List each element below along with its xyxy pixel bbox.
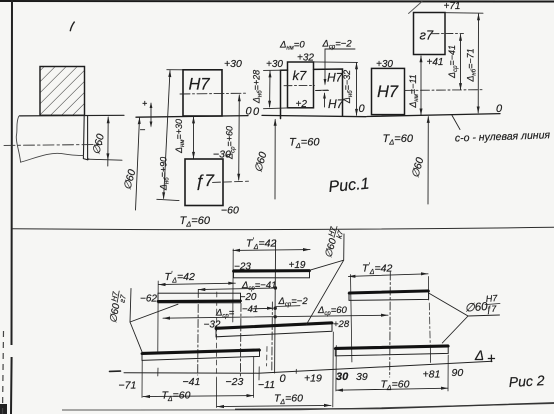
svg-text:+2: +2	[296, 99, 308, 110]
extension tick -11 at axis	[258, 367, 260, 380]
svg-text:−41: −41	[183, 376, 201, 388]
dimension D_sr=-41	[447, 34, 462, 90]
H7 centerline (d1)	[180, 92, 247, 95]
r7 centerline (d3)	[432, 32, 464, 34]
dimension T=60 (bottom left)	[143, 390, 254, 404]
svg-text:+30: +30	[224, 58, 242, 70]
svg-text:TΔ=60: TΔ=60	[274, 393, 303, 407]
dimension D_nb=+28	[252, 70, 272, 108]
r7 box (d3)	[414, 13, 446, 55]
svg-text:Δср=−41: Δср=−41	[241, 280, 276, 292]
shaft centerline	[4, 144, 102, 147]
svg-text:+: +	[142, 99, 147, 109]
+32 level extension (d2)	[314, 61, 358, 64]
shaft diameter dimension line	[107, 117, 109, 166]
+30 level tick (d1)	[167, 69, 183, 71]
svg-text:T'Δ=42: T'Δ=42	[246, 237, 276, 251]
svg-text:+19: +19	[304, 372, 322, 384]
dash-dot centerline +60	[389, 272, 392, 377]
shaft left break wavy line	[16, 116, 20, 162]
svg-text:+: +	[487, 352, 495, 368]
svg-text:39: 39	[356, 371, 368, 383]
k7 centerline (d2)	[284, 84, 315, 86]
svg-text:H7: H7	[189, 76, 211, 94]
shaft bottom extension tick	[88, 159, 122, 160]
H7 box (d3)	[372, 68, 405, 114]
bottom scan edge line	[62, 404, 554, 411]
svg-text:−23: −23	[226, 376, 244, 388]
axis line	[124, 361, 492, 373]
dash-dot centerline -41	[197, 290, 200, 376]
bottom left bar f7 band	[142, 349, 260, 361]
svg-text:∅60: ∅60	[464, 301, 488, 315]
extension line -71	[141, 361, 143, 398]
extension line 90	[447, 355, 449, 391]
svg-text:TΔ=60: TΔ=60	[383, 133, 414, 147]
svg-text:г7: г7	[420, 28, 434, 43]
extension line -62 left	[157, 281, 159, 352]
dimension T'=42 (right)	[348, 262, 428, 278]
H7 midline dashes (d2)	[316, 89, 330, 91]
axis minus sign	[110, 370, 121, 372]
f7 centerline dash (d1)	[213, 181, 249, 182]
label phi60 H7/f7 with leader	[429, 293, 500, 343]
label phi60 H7/r7 with leader	[106, 289, 178, 352]
dimension T'=42 (top)	[233, 237, 310, 252]
svg-text:−20: −20	[240, 292, 257, 303]
svg-text:ƒ7: ƒ7	[486, 304, 498, 315]
svg-text:−41: −41	[242, 304, 258, 315]
extension line 30 right	[335, 346, 337, 392]
svg-text:0: 0	[246, 106, 253, 118]
svg-text:TΔ=60: TΔ=60	[381, 379, 410, 393]
stray mark 1 (slash top-left)	[70, 22, 74, 32]
bottom-left corner dark mark	[0, 404, 7, 414]
dimension D_nb=-71	[466, 13, 481, 113]
figure separator line	[12, 227, 554, 229]
extension line -32 (dashed)	[215, 292, 217, 378]
svg-text:+71: +71	[444, 1, 461, 12]
extension tick -62 at axis	[157, 368, 159, 376]
stray diagonal scratch above r7	[409, 2, 423, 14]
dimension T'=42 (left)	[159, 271, 236, 286]
zero line callout leader	[452, 115, 460, 129]
node dot 1	[274, 286, 277, 289]
phi60 indicator line (d3)	[427, 117, 429, 204]
dimension D_nb=+90	[159, 70, 172, 199]
extension line -23	[232, 249, 234, 322]
svg-text:+30: +30	[376, 59, 393, 70]
dimension D_sr=-41 upper	[198, 280, 276, 292]
shaft bottom wavy line	[21, 153, 84, 162]
svg-text:Δср=60: Δср=60	[317, 305, 348, 317]
svg-text:T'Δ=42: T'Δ=42	[165, 271, 195, 285]
svg-text:+32: +32	[297, 53, 314, 64]
zero line (d3)	[367, 114, 500, 117]
dash-dot line at -2	[271, 302, 274, 372]
svg-text:90: 90	[452, 367, 464, 379]
svg-text:H7: H7	[485, 293, 498, 304]
f7 box (d1)	[185, 159, 223, 206]
svg-text:TΔ=60: TΔ=60	[162, 390, 191, 404]
svg-text:−32: −32	[204, 319, 221, 330]
svg-text:0: 0	[280, 373, 287, 385]
zero line	[136, 116, 248, 118]
node dot 2	[274, 307, 277, 310]
phi60 indicator line (d2)	[274, 120, 276, 200]
svg-text:−62: −62	[140, 293, 157, 304]
dimension T=60 (bottom middle)	[217, 393, 331, 409]
label phi60 H7/k7 with leader	[306, 224, 346, 325]
svg-text:Рuc 2: Рuc 2	[508, 372, 545, 390]
extension line +81 lower	[429, 345, 431, 363]
phi60 indicator line (d1)	[136, 118, 140, 210]
zero line (d2)	[262, 115, 366, 116]
svg-text:−11: −11	[258, 379, 275, 391]
page top edge line	[0, 0, 554, 3]
svg-text:−60: −60	[221, 205, 239, 217]
plus minus indicator	[140, 99, 153, 137]
dimension T=60 (bottom right)	[336, 379, 448, 393]
dash-dot centerline -20 edge	[239, 304, 242, 378]
H7 midline extension (d3)	[405, 89, 484, 92]
right top bar k7' band	[349, 290, 429, 301]
svg-text:T'Δ=42: T'Δ=42	[362, 262, 392, 276]
vertical reference line 0	[275, 240, 276, 373]
svg-text:+41: +41	[427, 57, 444, 68]
-60 level tick (d1)	[157, 199, 179, 200]
svg-text:0: 0	[253, 106, 260, 118]
dimension D_nb=-32	[342, 62, 358, 116]
extension line 28/30 left	[332, 332, 335, 407]
+30 level tick (d2)	[264, 69, 281, 71]
svg-text:k7: k7	[293, 68, 308, 83]
extension line -11 dim	[253, 357, 255, 398]
svg-text:H7: H7	[377, 83, 399, 101]
extension line +19 tick	[295, 369, 297, 373]
svg-text:TΔ=60: TΔ=60	[289, 137, 320, 151]
svg-text:+19: +19	[289, 260, 306, 271]
hatched hub block	[40, 67, 85, 116]
k7 box (d2)	[288, 62, 314, 108]
+71 level extension	[445, 12, 483, 15]
short arrow to zero (lower)	[252, 307, 273, 310]
bottom-left dashed page crease	[3, 331, 4, 414]
middle bar H7 band	[216, 322, 332, 337]
extension line -11 (dashed)	[266, 347, 268, 367]
top bar k7 band	[234, 270, 310, 278]
svg-text:0: 0	[359, 103, 366, 115]
node dot 3	[274, 315, 277, 318]
svg-text:−23: −23	[234, 261, 251, 272]
svg-text:TΔ=60: TΔ=60	[180, 215, 211, 229]
-62 bar r7 band	[158, 293, 241, 303]
extension line -32 to lower dim	[216, 378, 218, 408]
svg-text:Рuc.1: Рuc.1	[328, 175, 370, 196]
svg-text:30: 30	[336, 371, 349, 383]
svg-text:Δ: Δ	[474, 348, 484, 363]
dimension D_sr=+60 (d1)	[224, 94, 241, 181]
dimension D_nm=+30	[174, 116, 195, 158]
shaft top line	[20, 114, 125, 117]
svg-text:ƒ7: ƒ7	[195, 171, 214, 190]
svg-text:+81: +81	[423, 368, 441, 380]
svg-text:0: 0	[496, 103, 503, 115]
extension line +81 middle dash-dot	[428, 303, 431, 344]
svg-text:−: −	[140, 125, 146, 136]
svg-text:−71: −71	[119, 380, 137, 392]
label D_sr=-2 with leader	[316, 39, 355, 108]
dimension D_nm=-11	[408, 55, 423, 115]
+2 level tick (d2)	[264, 107, 288, 110]
H7 box (d2)	[281, 69, 343, 119]
page left border line	[11, 0, 12, 414]
long dimension line through dots	[163, 315, 388, 318]
extension line 39	[351, 275, 352, 363]
svg-text:+30: +30	[266, 59, 283, 70]
shaft end face	[83, 115, 88, 159]
H7 box (d1)	[183, 70, 222, 116]
right bottom bar f7' band	[335, 345, 448, 356]
extension line +81 upper	[427, 277, 429, 301]
svg-text:+28: +28	[333, 319, 350, 330]
